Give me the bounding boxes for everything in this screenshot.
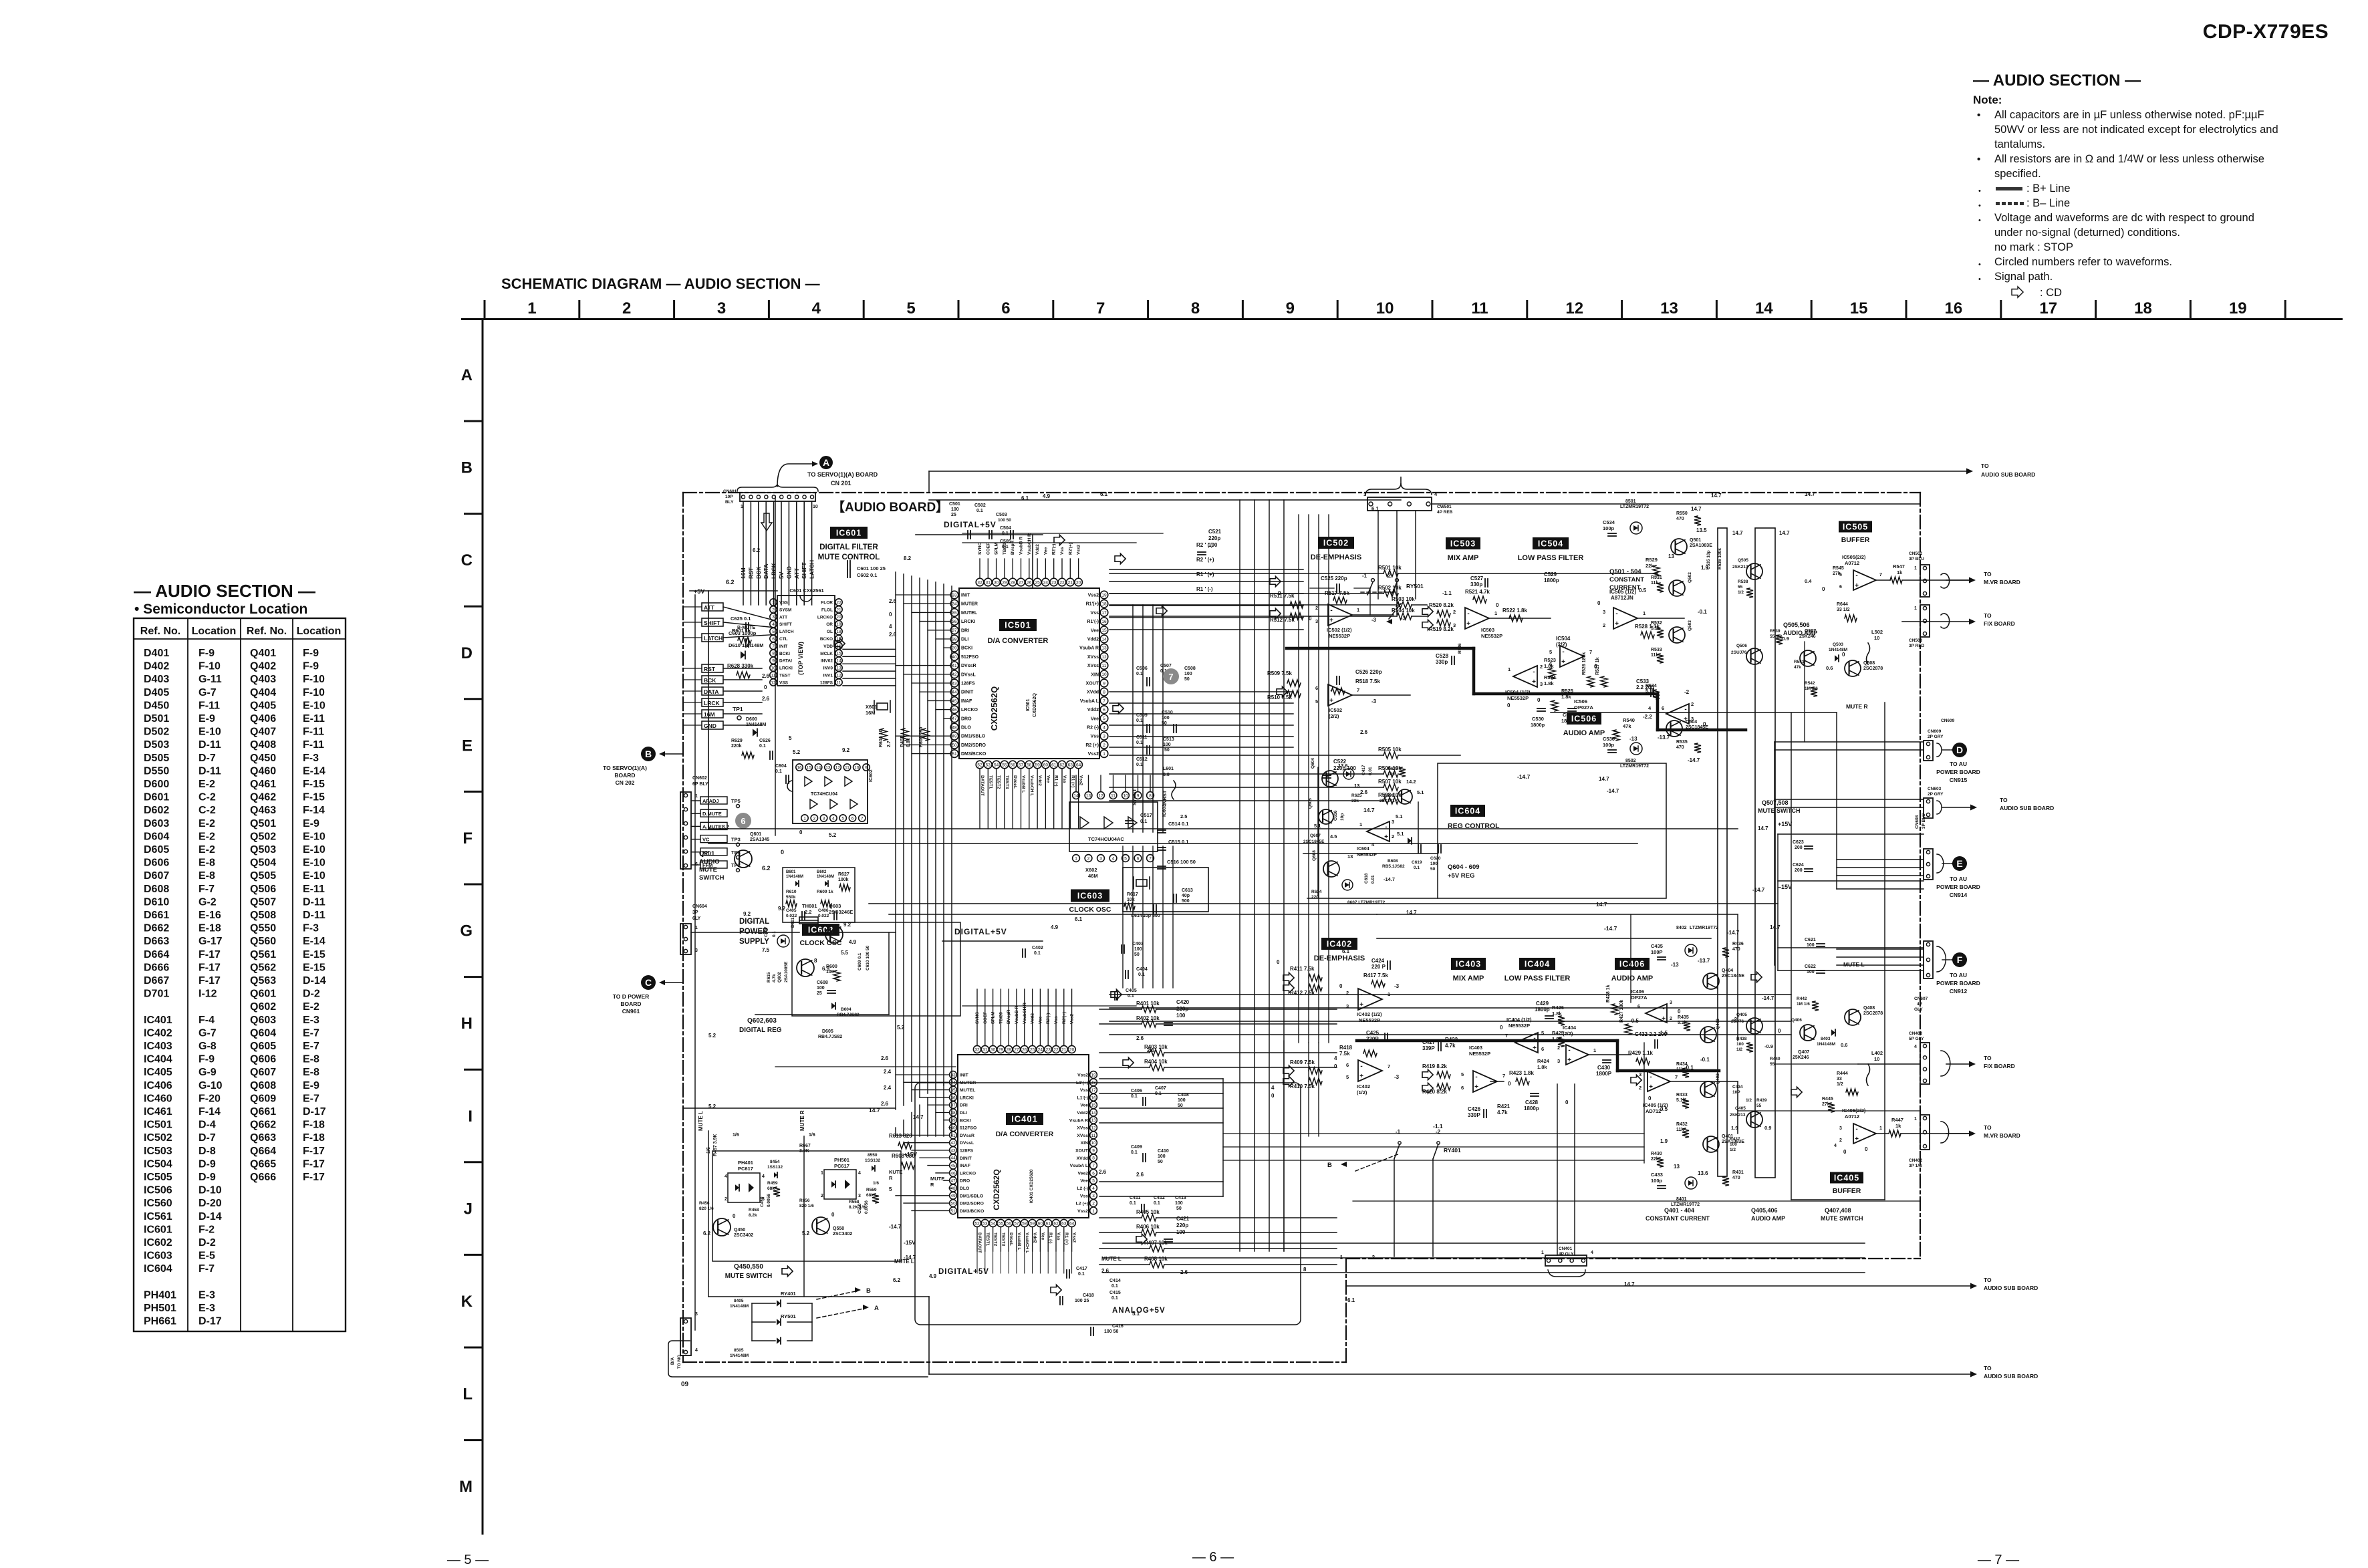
svg-text:10: 10 bbox=[1091, 1141, 1096, 1146]
svg-text:33: 33 bbox=[952, 593, 957, 598]
svg-text:BCKI: BCKI bbox=[961, 646, 972, 651]
svg-text:C622: C622 bbox=[1805, 964, 1816, 969]
IC603 label bbox=[1071, 890, 1109, 902]
svg-text:CN 201: CN 201 bbox=[831, 480, 851, 487]
svg-text:29: 29 bbox=[1002, 580, 1007, 585]
svg-text:G: G bbox=[460, 922, 473, 940]
svg-text:SUPPLY: SUPPLY bbox=[739, 938, 769, 946]
svg-text:5.2: 5.2 bbox=[708, 1033, 716, 1039]
svg-text:A: A bbox=[461, 366, 473, 384]
svg-text:TO: TO bbox=[1984, 571, 1992, 577]
svg-text:5: 5 bbox=[841, 816, 844, 821]
svg-text:14.7: 14.7 bbox=[1770, 924, 1781, 930]
svg-text:50: 50 bbox=[1176, 1206, 1182, 1211]
svg-text:R533: R533 bbox=[1651, 648, 1662, 652]
svg-text:58: 58 bbox=[1022, 1221, 1027, 1226]
svg-text:39: 39 bbox=[952, 646, 957, 651]
svg-text:15: 15 bbox=[807, 765, 812, 770]
svg-text:C429: C429 bbox=[1536, 1001, 1549, 1007]
svg-text:Q664: Q664 bbox=[250, 1146, 276, 1157]
svg-text:DIGITAL REG: DIGITAL REG bbox=[739, 1027, 782, 1034]
svg-text:0.01: 0.01 bbox=[1368, 767, 1373, 775]
svg-text:-3: -3 bbox=[1394, 983, 1400, 989]
svg-text:E-18: E-18 bbox=[199, 923, 221, 934]
svg-text:C406: C406 bbox=[818, 908, 829, 913]
svg-text:100: 100 bbox=[1158, 1154, 1166, 1159]
svg-text:BCK: BCK bbox=[704, 677, 716, 684]
svg-text:45: 45 bbox=[950, 1164, 956, 1168]
svg-text:46: 46 bbox=[950, 1171, 956, 1176]
svg-text:4: 4 bbox=[858, 1171, 861, 1176]
svg-text:2.2: 2.2 bbox=[805, 909, 811, 915]
svg-text:5V: 5V bbox=[778, 571, 785, 579]
svg-text:C430: C430 bbox=[1597, 1065, 1611, 1071]
svg-text:E-7: E-7 bbox=[303, 1041, 319, 1052]
svg-text:Voltage and waveforms are dc w: Voltage and waveforms are dc with respec… bbox=[1994, 212, 2254, 224]
svg-text:-: - bbox=[1568, 1047, 1570, 1054]
svg-text:7: 7 bbox=[1505, 1033, 1508, 1039]
svg-text:TO: TO bbox=[1984, 1055, 1992, 1061]
bus bars right section bbox=[1718, 528, 1727, 1176]
svg-text:4.9: 4.9 bbox=[929, 1273, 937, 1279]
svg-text:: CD: : CD bbox=[2040, 287, 2062, 299]
svg-text:GND: GND bbox=[785, 566, 792, 579]
svg-text:Vee: Vee bbox=[1040, 1232, 1045, 1240]
svg-text:SYNC: SYNC bbox=[975, 1012, 980, 1024]
svg-text:44: 44 bbox=[950, 1156, 956, 1161]
svg-text:LOW PASS FILTER: LOW PASS FILTER bbox=[1504, 974, 1571, 983]
svg-text:8: 8 bbox=[1149, 793, 1152, 798]
svg-text:R1 (-): R1 (-) bbox=[1054, 775, 1059, 787]
svg-text:Q503: Q503 bbox=[250, 844, 276, 856]
svg-text:A8712JN: A8712JN bbox=[1611, 595, 1633, 601]
svg-text:1/2: 1/2 bbox=[1746, 1098, 1752, 1103]
svg-text:SHIFT: SHIFT bbox=[801, 562, 807, 579]
svg-text:OR: OR bbox=[826, 622, 833, 627]
svg-text:R545: R545 bbox=[1833, 566, 1844, 571]
svg-text:R442: R442 bbox=[1797, 997, 1807, 1001]
svg-text:DLO: DLO bbox=[961, 726, 971, 731]
svg-text:58: 58 bbox=[1027, 763, 1032, 767]
svg-text:PH401: PH401 bbox=[738, 1160, 753, 1166]
zener D606 bbox=[1343, 769, 1354, 779]
svg-text:DIGITAL FILTER: DIGITAL FILTER bbox=[819, 543, 878, 551]
svg-text:R656: R656 bbox=[799, 1198, 810, 1203]
svg-text:Q550: Q550 bbox=[833, 1226, 844, 1231]
svg-text:0: 0 bbox=[831, 1212, 835, 1218]
analog +5V domain box bbox=[915, 1083, 1301, 1325]
svg-text:D/A CONVERTER: D/A CONVERTER bbox=[988, 637, 1049, 645]
svg-text:C415: C415 bbox=[1109, 1291, 1121, 1295]
svg-text:R411 7.5k: R411 7.5k bbox=[1290, 966, 1315, 972]
svg-text:R608 680: R608 680 bbox=[892, 1153, 915, 1159]
svg-text:TO AU: TO AU bbox=[1950, 972, 1967, 978]
svg-text:4.5: 4.5 bbox=[1330, 833, 1337, 839]
svg-text:14: 14 bbox=[1755, 299, 1773, 317]
svg-text:D-17: D-17 bbox=[303, 1106, 326, 1118]
svg-text:•: • bbox=[1977, 110, 1980, 121]
svg-text:B602: B602 bbox=[817, 870, 827, 874]
connector CN201 brace bbox=[737, 485, 818, 491]
svg-text:2SC3402: 2SC3402 bbox=[734, 1233, 753, 1238]
svg-text:25: 25 bbox=[1030, 1047, 1035, 1052]
svg-text:9.2: 9.2 bbox=[743, 911, 751, 917]
svg-text:4.7k: 4.7k bbox=[1497, 1109, 1508, 1116]
svg-text:C407: C407 bbox=[1155, 1086, 1166, 1091]
svg-text:VC: VC bbox=[702, 837, 710, 843]
svg-text:E-9: E-9 bbox=[303, 818, 319, 829]
svg-text:K: K bbox=[461, 1293, 473, 1311]
svg-text:61: 61 bbox=[1046, 1221, 1051, 1226]
svg-text:R1'(-): R1'(-) bbox=[1087, 620, 1099, 624]
svg-text:-13: -13 bbox=[1629, 736, 1637, 742]
svg-text:R600: R600 bbox=[826, 964, 837, 969]
svg-text:820 1/6: 820 1/6 bbox=[799, 1204, 814, 1208]
svg-text:Vss2: Vss2 bbox=[1077, 1209, 1088, 1214]
svg-text:13: 13 bbox=[836, 666, 841, 671]
svg-text:A: A bbox=[823, 457, 829, 468]
svg-text:33k: 33k bbox=[1351, 799, 1359, 803]
svg-text:10: 10 bbox=[1376, 299, 1394, 317]
svg-text:2SC3402: 2SC3402 bbox=[833, 1232, 852, 1236]
svg-text:F-9: F-9 bbox=[303, 648, 319, 659]
svg-text:R609 1k: R609 1k bbox=[817, 890, 833, 894]
svg-text:TEST: TEST bbox=[779, 674, 791, 678]
svg-text:57: 57 bbox=[1019, 763, 1024, 767]
svg-text:3: 3 bbox=[858, 1194, 861, 1198]
svg-text:Q501: Q501 bbox=[250, 818, 276, 829]
transistor Q508 bbox=[1845, 660, 1861, 676]
svg-text:2SC3246E: 2SC3246E bbox=[829, 909, 853, 915]
svg-text:INV02: INV02 bbox=[821, 659, 833, 664]
svg-text:AUDIO SUB BOARD: AUDIO SUB BOARD bbox=[1984, 1285, 2038, 1291]
svg-text:R1 ' (-): R1 ' (-) bbox=[1196, 586, 1213, 592]
long wires from IC401 right bbox=[1099, 1078, 1223, 1079]
svg-text:512FSO: 512FSO bbox=[961, 655, 979, 660]
svg-text:0: 0 bbox=[1648, 1095, 1652, 1101]
svg-text:TO D POWER: TO D POWER bbox=[613, 993, 650, 1000]
LED D607 bbox=[1342, 880, 1353, 890]
svg-text:R1 (+): R1 (+) bbox=[1070, 775, 1075, 787]
svg-text:40p: 40p bbox=[1182, 894, 1190, 898]
svg-text:Vee2: Vee2 bbox=[1078, 1171, 1089, 1176]
svg-text:R522 1.8k: R522 1.8k bbox=[1502, 608, 1527, 614]
IC505 buffer output stage bbox=[1839, 521, 1872, 533]
svg-text:-3: -3 bbox=[1394, 1074, 1400, 1080]
svg-text:INAF: INAF bbox=[961, 699, 972, 704]
svg-text:D-11: D-11 bbox=[303, 896, 325, 908]
svg-text:1: 1 bbox=[772, 600, 775, 605]
svg-text:C527: C527 bbox=[1470, 575, 1484, 581]
svg-text:1/2: 1/2 bbox=[1837, 1082, 1843, 1087]
svg-text:E-14: E-14 bbox=[303, 936, 325, 947]
svg-text:•: • bbox=[1978, 202, 1981, 210]
svg-text:Q607: Q607 bbox=[1310, 833, 1321, 838]
svg-text:-2: -2 bbox=[1386, 573, 1392, 579]
svg-text:CN603: CN603 bbox=[1928, 787, 1942, 791]
svg-text:D-8: D-8 bbox=[199, 1146, 216, 1157]
svg-text:D-14: D-14 bbox=[303, 975, 326, 987]
svg-text:+: + bbox=[1533, 1045, 1537, 1052]
svg-text:-14.7: -14.7 bbox=[889, 1224, 902, 1230]
svg-text:16: 16 bbox=[1945, 299, 1963, 317]
svg-text:6LY: 6LY bbox=[692, 916, 701, 921]
IC504 label bbox=[1533, 537, 1569, 549]
svg-text:0: 0 bbox=[1678, 1009, 1681, 1015]
svg-text:0.6: 0.6 bbox=[1826, 665, 1833, 671]
svg-text:DVssL: DVssL bbox=[960, 1141, 974, 1146]
svg-text:C418: C418 bbox=[1083, 1293, 1094, 1298]
svg-text:D-9: D-9 bbox=[199, 1172, 216, 1183]
svg-text:TO MO: TO MO bbox=[677, 1355, 682, 1369]
svg-text:14: 14 bbox=[1101, 637, 1107, 642]
svg-text:•: • bbox=[1978, 187, 1981, 195]
svg-text:9: 9 bbox=[1103, 681, 1105, 686]
svg-text:5: 5 bbox=[1346, 1074, 1349, 1080]
svg-text:4: 4 bbox=[812, 299, 821, 317]
svg-text:100: 100 bbox=[1430, 862, 1438, 866]
svg-text:D: D bbox=[461, 644, 473, 662]
svg-text:100: 100 bbox=[1178, 1098, 1186, 1103]
svg-text:MUTEL: MUTEL bbox=[961, 611, 978, 616]
svg-text:VsubCH L: VsubCH L bbox=[1029, 775, 1034, 796]
svg-text:C608: C608 bbox=[817, 981, 828, 985]
svg-text:27: 27 bbox=[1019, 580, 1024, 585]
svg-text:4: 4 bbox=[1112, 856, 1115, 861]
svg-text:LTZMR19T72: LTZMR19T72 bbox=[1690, 926, 1718, 930]
svg-text:0: 0 bbox=[1500, 1025, 1503, 1031]
svg-text:0: 0 bbox=[781, 849, 784, 856]
svg-text:IC604: IC604 bbox=[144, 1263, 172, 1275]
svg-text:RST: RST bbox=[747, 567, 754, 579]
svg-text:C626: C626 bbox=[759, 739, 771, 743]
svg-text:100: 100 bbox=[826, 970, 834, 974]
svg-text:339P: 339P bbox=[1422, 1045, 1435, 1051]
svg-text:COEF: COEF bbox=[986, 543, 991, 555]
svg-text:E-16: E-16 bbox=[199, 910, 221, 921]
svg-text:330p: 330p bbox=[1436, 659, 1448, 665]
svg-text:LRCKI: LRCKI bbox=[961, 620, 975, 624]
svg-text:C521: C521 bbox=[1208, 529, 1222, 535]
svg-text:MUTE: MUTE bbox=[699, 866, 717, 874]
IC602 label bbox=[802, 924, 839, 936]
svg-text:Q402: Q402 bbox=[250, 661, 276, 672]
svg-text:(1/2): (1/2) bbox=[1357, 1089, 1367, 1095]
signal arrow DATA bbox=[761, 513, 772, 531]
svg-text:40: 40 bbox=[952, 655, 957, 660]
svg-text:MUTE SWITCH: MUTE SWITCH bbox=[1758, 807, 1801, 814]
svg-text:OP027A: OP027A bbox=[1574, 704, 1593, 710]
svg-text:D-17: D-17 bbox=[199, 1316, 222, 1327]
svg-text:E-2: E-2 bbox=[199, 831, 215, 842]
svg-text:Q601: Q601 bbox=[250, 989, 276, 1000]
svg-text:6.1: 6.1 bbox=[1342, 948, 1350, 954]
svg-text:27k: 27k bbox=[1833, 571, 1841, 576]
svg-text:Q602: Q602 bbox=[777, 972, 782, 983]
svg-text:6.2: 6.2 bbox=[753, 547, 761, 553]
svg-text:16: 16 bbox=[1091, 1095, 1096, 1100]
svg-text:2: 2 bbox=[1639, 1085, 1641, 1091]
svg-text:PH401: PH401 bbox=[144, 1289, 176, 1301]
svg-text:R613 820: R613 820 bbox=[889, 1133, 912, 1139]
svg-text:Q401 - 404: Q401 - 404 bbox=[1664, 1207, 1694, 1214]
svg-text:-3: -3 bbox=[1371, 617, 1377, 623]
svg-text:E-7: E-7 bbox=[303, 1027, 319, 1039]
node A (to servo board) bbox=[819, 456, 833, 469]
svg-text:C624: C624 bbox=[1793, 863, 1804, 868]
svg-text:F-10: F-10 bbox=[303, 674, 325, 685]
svg-text:DVssR: DVssR bbox=[961, 664, 976, 668]
svg-text:RB5.1JS82: RB5.1JS82 bbox=[1382, 864, 1405, 869]
svg-text:Q560: Q560 bbox=[250, 936, 276, 947]
svg-text:14: 14 bbox=[816, 765, 821, 770]
svg-text:38: 38 bbox=[952, 637, 957, 642]
svg-text:0: 0 bbox=[1507, 702, 1510, 708]
svg-text:CN 202: CN 202 bbox=[616, 779, 635, 786]
svg-text:-14.7: -14.7 bbox=[1688, 757, 1700, 763]
svg-text:C450: C450 bbox=[760, 1196, 765, 1207]
svg-text:R667: R667 bbox=[799, 1144, 811, 1148]
svg-text:220k: 220k bbox=[731, 744, 742, 749]
svg-text:10: 10 bbox=[813, 505, 818, 509]
svg-text:2.4: 2.4 bbox=[884, 1085, 892, 1091]
svg-text:4.9: 4.9 bbox=[1043, 493, 1051, 499]
svg-text:8.2: 8.2 bbox=[904, 555, 912, 561]
svg-text:-2.2: -2.2 bbox=[1643, 714, 1652, 720]
svg-text:F-11: F-11 bbox=[199, 700, 220, 711]
svg-text:24: 24 bbox=[1043, 580, 1049, 585]
svg-text:E-11: E-11 bbox=[303, 713, 325, 725]
svg-text:12: 12 bbox=[1091, 1126, 1096, 1131]
svg-text:2.6: 2.6 bbox=[1136, 1035, 1144, 1041]
svg-text:•: • bbox=[1978, 217, 1981, 225]
svg-text:28: 28 bbox=[1007, 1047, 1012, 1052]
svg-text:8501: 8501 bbox=[1625, 499, 1636, 504]
svg-text:C536: C536 bbox=[1603, 736, 1615, 742]
svg-text:D-7: D-7 bbox=[199, 753, 216, 764]
IC501 top pins bbox=[976, 578, 984, 586]
svg-text:3: 3 bbox=[772, 615, 775, 620]
svg-text:0.1: 0.1 bbox=[1130, 1201, 1136, 1206]
svg-text:C517: C517 bbox=[1140, 812, 1152, 818]
svg-text:2: 2 bbox=[1670, 1017, 1672, 1021]
svg-text:FIX BOARD: FIX BOARD bbox=[1984, 1063, 2015, 1069]
svg-text:Vdd2: Vdd2 bbox=[1033, 1232, 1037, 1243]
svg-text:11: 11 bbox=[837, 680, 841, 685]
svg-text:B: B bbox=[866, 1287, 871, 1295]
svg-text:6: 6 bbox=[1839, 585, 1842, 590]
svg-text:NE5532P: NE5532P bbox=[1359, 1017, 1380, 1023]
svg-text:CN914: CN914 bbox=[1950, 892, 1968, 898]
svg-text:1N4148M: 1N4148M bbox=[786, 875, 803, 879]
svg-text:1: 1 bbox=[1092, 1209, 1095, 1214]
svg-text:DIGITAL+5V: DIGITAL+5V bbox=[938, 1268, 989, 1276]
svg-text:C410: C410 bbox=[1158, 1149, 1169, 1154]
svg-text:R539: R539 bbox=[1770, 629, 1781, 634]
svg-text:11: 11 bbox=[1471, 299, 1488, 317]
svg-text:-0.9: -0.9 bbox=[1764, 1043, 1773, 1049]
svg-text:0: 0 bbox=[1277, 959, 1280, 965]
svg-text:Vdd2: Vdd2 bbox=[1035, 544, 1040, 555]
svg-text:Q450,550: Q450,550 bbox=[734, 1263, 763, 1271]
svg-text:Q562: Q562 bbox=[250, 962, 276, 973]
svg-text:D401: D401 bbox=[144, 648, 169, 659]
svg-text:PH501: PH501 bbox=[144, 1303, 176, 1314]
svg-text:VsubB L: VsubB L bbox=[1021, 775, 1026, 793]
svg-text:2.7: 2.7 bbox=[887, 741, 892, 747]
svg-text:6: 6 bbox=[1662, 705, 1664, 711]
svg-text:R431: R431 bbox=[1732, 1170, 1744, 1175]
svg-text:Q505: Q505 bbox=[1738, 558, 1748, 563]
crystal X602 circuit bbox=[1123, 868, 1208, 912]
transistor Q605 bbox=[1319, 809, 1333, 824]
svg-text:R459: R459 bbox=[767, 1181, 778, 1186]
svg-text:6.1: 6.1 bbox=[1347, 1297, 1355, 1303]
svg-text:13: 13 bbox=[1101, 646, 1107, 651]
svg-text:21: 21 bbox=[836, 608, 841, 612]
svg-text:DIGITAL: DIGITAL bbox=[739, 918, 769, 926]
svg-text:C-2: C-2 bbox=[199, 792, 216, 803]
svg-text:100: 100 bbox=[1176, 1013, 1186, 1019]
svg-text:E-8: E-8 bbox=[303, 1054, 319, 1065]
svg-text:100: 100 bbox=[1134, 947, 1142, 952]
IC401 bottom pins bbox=[973, 1219, 980, 1226]
svg-text:1: 1 bbox=[1075, 856, 1077, 861]
svg-text:C435: C435 bbox=[1651, 943, 1663, 949]
svg-text:E-15: E-15 bbox=[303, 949, 325, 960]
svg-text:3: 3 bbox=[1540, 681, 1543, 687]
vertical bus SYRST INRST bbox=[1132, 605, 1134, 832]
svg-text:Q403: Q403 bbox=[250, 674, 276, 685]
svg-text:0.022: 0.022 bbox=[818, 914, 829, 918]
svg-text:-: - bbox=[1562, 648, 1564, 656]
svg-text:E-8: E-8 bbox=[303, 1067, 319, 1078]
svg-text:1: 1 bbox=[1541, 1251, 1544, 1255]
svg-text:M.VR BOARD: M.VR BOARD bbox=[1984, 579, 2020, 585]
svg-text:AUDIO: AUDIO bbox=[699, 858, 720, 866]
svg-text:0.1: 0.1 bbox=[1414, 866, 1420, 870]
svg-text:2P GRY: 2P GRY bbox=[1928, 735, 1944, 739]
svg-text:G-7: G-7 bbox=[199, 687, 217, 698]
svg-text:5.1: 5.1 bbox=[1132, 1311, 1140, 1317]
svg-text:C609 0.1: C609 0.1 bbox=[858, 952, 862, 970]
svg-text:2.6: 2.6 bbox=[889, 632, 897, 638]
svg-text:0.0056: 0.0056 bbox=[767, 1194, 771, 1207]
svg-text:2: 2 bbox=[1453, 609, 1456, 615]
IC404 label bbox=[1519, 958, 1555, 970]
svg-text:D-7: D-7 bbox=[199, 1132, 216, 1144]
transistor Q504 bbox=[1666, 721, 1682, 737]
svg-text:C-2: C-2 bbox=[199, 805, 216, 816]
svg-text:TC74HCU04: TC74HCU04 bbox=[811, 792, 837, 797]
svg-text:Q402: Q402 bbox=[1716, 1073, 1720, 1084]
svg-text:IC401: IC401 bbox=[1011, 1114, 1038, 1124]
svg-text:IC603: IC603 bbox=[1077, 892, 1103, 901]
svg-text:CONSTANT CURRENT: CONSTANT CURRENT bbox=[1646, 1215, 1710, 1222]
svg-text:100 25: 100 25 bbox=[1075, 1299, 1089, 1303]
svg-text:E-7: E-7 bbox=[303, 1093, 319, 1104]
svg-text:DM1/SBLO: DM1/SBLO bbox=[960, 1194, 983, 1198]
svg-text:MUTE L: MUTE L bbox=[1843, 961, 1865, 968]
svg-text:+: + bbox=[1615, 620, 1619, 628]
svg-text:0: 0 bbox=[1822, 586, 1825, 592]
svg-text:9.2: 9.2 bbox=[778, 906, 786, 912]
svg-text:12: 12 bbox=[1565, 299, 1583, 317]
svg-text:BOARD: BOARD bbox=[620, 1001, 641, 1007]
svg-text:BCKI: BCKI bbox=[960, 1118, 971, 1123]
svg-text:— AUDIO SECTION —: — AUDIO SECTION — bbox=[134, 581, 315, 601]
svg-text:D-14: D-14 bbox=[199, 1211, 222, 1222]
